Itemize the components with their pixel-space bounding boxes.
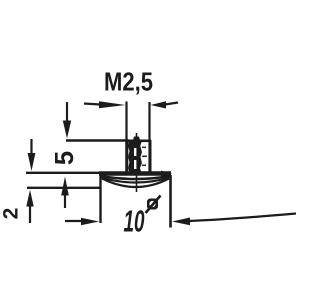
svg-text:2: 2 bbox=[0, 208, 23, 220]
svg-text:10: 10 bbox=[124, 204, 145, 239]
svg-text:M2,5: M2,5 bbox=[104, 69, 153, 97]
svg-text:5: 5 bbox=[51, 151, 79, 165]
